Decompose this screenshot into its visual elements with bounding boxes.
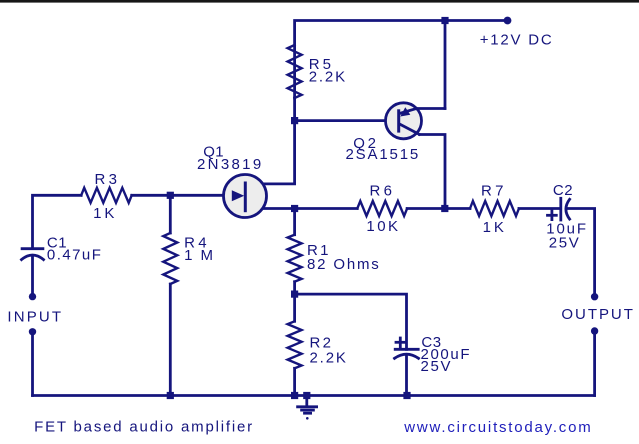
wire: +12V top rail (295, 21, 508, 99)
svg-text:25V: 25V (421, 358, 451, 375)
node junction: R3 / R4 (167, 192, 174, 199)
top border (0, 0, 639, 3)
node terminal: input upper (29, 293, 36, 300)
node terminal: output lower (591, 327, 598, 334)
svg-text:2.2K: 2.2K (309, 68, 345, 85)
resistor R6 (357, 201, 407, 216)
node junction: Q2 collector / R6 / R7 (441, 205, 448, 212)
capacitor C1 (22, 247, 43, 250)
resistor R1 (288, 235, 302, 282)
transistor Q1 (2N3819 JFET) (224, 175, 267, 218)
wire: R7 to C2 (519, 207, 560, 210)
resistor R5 (288, 45, 302, 98)
wire: C2 to output corner, down to OUTPUT (568, 209, 595, 297)
wire: Q1 source to R6 (245, 207, 357, 210)
wire: R4 top from R3 junction (169, 195, 172, 233)
wire: input coupling cap to INPUT terminal (31, 257, 34, 297)
transistor Q2 (2SA1515 PNP) (386, 103, 422, 139)
svg-text:82 Ohms: 82 Ohms (307, 256, 379, 273)
node junction: ground symbol tap (303, 392, 310, 399)
node junction: R4 / ground rail (167, 392, 174, 399)
node terminal: output upper (591, 293, 598, 300)
wire: INPUT lower lead (31, 332, 34, 396)
wire: R1 bottom junction (293, 282, 296, 322)
svg-text:1 M: 1 M (184, 247, 213, 264)
node junction: C3 / ground rail (403, 392, 410, 399)
ground (305, 396, 308, 407)
C3 plus sign (396, 341, 405, 344)
node terminal: +12V DC (504, 17, 512, 25)
svg-text:2.2K: 2.2K (310, 350, 346, 367)
svg-text:www.circuitstoday.com: www.circuitstoday.com (403, 419, 590, 436)
wire: R2 bottom to rail (293, 368, 296, 395)
svg-text:1K: 1K (93, 205, 114, 222)
wire: R1/R2 node to C3 top (295, 294, 407, 349)
svg-text:C2: C2 (553, 182, 573, 199)
node junction: R1 / R2 / C3 branch (291, 291, 298, 298)
wire: R5 bottom to Q2 base junction and down to drain corner (245, 98, 295, 184)
wire: R3 to Q1 gate (132, 194, 232, 197)
wire: bottom ground rail (33, 394, 595, 397)
svg-text:+12V DC: +12V DC (480, 32, 552, 49)
wire: C3 bottom to rail (405, 356, 408, 396)
wire: input gate line left segment (33, 195, 82, 248)
resistor R4 (163, 233, 177, 284)
node junction: R5 bottom / Q2 base (291, 117, 298, 124)
capacitor C3 (395, 348, 418, 351)
resistor R2 (288, 321, 302, 368)
svg-text:0.47uF: 0.47uF (47, 247, 101, 264)
wire: V+ vertical to Q2 emitter (444, 21, 447, 109)
wire: OUTPUT lower lead (593, 331, 596, 396)
node junction: V+ rail / Q2 emitter (441, 17, 448, 24)
resistor R3 (81, 188, 132, 203)
wire: Q2 emitter stub (417, 107, 446, 110)
wire: R4 bottom to ground rail (169, 284, 172, 396)
resistor R7 (470, 201, 519, 216)
svg-text:25V: 25V (549, 234, 579, 251)
wire: Q1 source junction down to R1 (293, 209, 296, 235)
capacitor C2 (559, 198, 562, 220)
svg-text:1K: 1K (483, 219, 504, 236)
svg-text:10K: 10K (366, 218, 398, 235)
wire: R6 to R7 (407, 207, 470, 210)
wire: Q2 base horizontal (295, 119, 387, 122)
node junction: Q1 source / R1 / R6 (291, 205, 298, 212)
wire: Q2 collector stub and vertical down to R6/R7 node (420, 135, 446, 209)
svg-text:INPUT: INPUT (7, 308, 61, 325)
svg-text:2SA1515: 2SA1515 (346, 146, 419, 163)
C2 plus sign (548, 214, 557, 217)
node terminal: input lower (29, 328, 36, 335)
node junction: R2 / ground rail (291, 392, 298, 399)
